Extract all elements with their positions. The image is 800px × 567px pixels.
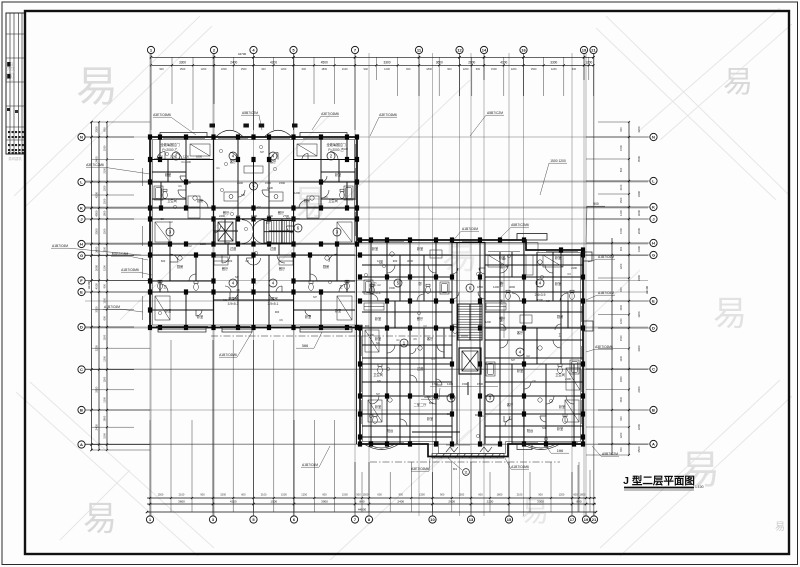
top dimension ticks and numbers row2 [150,64,595,71]
svg-text:900: 900 [447,67,452,71]
svg-text:1200: 1200 [102,396,106,402]
svg-text:1500 1200: 1500 1200 [550,159,566,163]
svg-text:易: 易 [521,496,549,527]
svg-text:1500: 1500 [157,154,163,158]
svg-text:#M8 (2): #M8 (2) [424,395,435,399]
svg-text:1500: 1500 [102,432,106,438]
svg-text:M1: M1 [453,467,457,471]
building outer wall block1 [150,137,360,328]
svg-text:A3E7/C6M6: A3E7/C6M6 [321,112,339,116]
svg-text:3300: 3300 [383,60,390,64]
window glazing lines [142,138,581,445]
building outer wall inner faces [153,140,581,454]
svg-text:17: 17 [570,517,575,522]
svg-text:1800: 1800 [321,67,327,71]
svg-text:900: 900 [365,324,370,328]
left dimension line middle [98,122,100,450]
svg-text:客厅: 客厅 [517,330,524,335]
left dimension line outer [91,122,93,450]
svg-text:11: 11 [464,470,468,474]
svg-text:M3B7/C8M: M3B7/C8M [112,252,129,256]
svg-text:C6: C6 [532,379,536,383]
svg-text:4200: 4200 [637,126,641,133]
svg-text:A5B7/C2M6: A5B7/C2M6 [511,223,529,227]
svg-text:M5: M5 [377,379,381,383]
left dimension extension lines [92,122,151,450]
svg-text:2600: 2600 [94,264,98,271]
svg-text:900: 900 [475,413,480,417]
svg-text:M5: M5 [187,181,191,185]
svg-text:900: 900 [619,127,623,132]
svg-text:2550: 2550 [500,263,504,269]
svg-text:卧室: 卧室 [165,308,171,313]
svg-text:卧室: 卧室 [197,314,203,319]
svg-text:K: K [80,206,83,211]
svg-text:C6: C6 [413,337,417,341]
svg-text:4000: 4000 [509,285,515,289]
svg-text:A5B7/C2M: A5B7/C2M [242,111,258,115]
svg-text:E: E [80,290,83,295]
svg-text:1200: 1200 [637,311,641,318]
svg-text:M7: M7 [546,299,550,303]
svg-text:全玻璃推拉门: 全玻璃推拉门 [160,142,179,147]
svg-text:1500: 1500 [619,145,623,151]
svg-text:J: J [80,217,82,222]
svg-text:1800: 1800 [102,210,106,216]
svg-text:M1: M1 [542,426,546,430]
right dimension line inner [611,238,613,455]
svg-text:600: 600 [241,492,246,496]
svg-text:2600: 2600 [637,227,641,234]
entrance porch steps [432,454,504,459]
svg-text:900: 900 [200,492,205,496]
svg-text:4200: 4200 [637,423,641,430]
svg-text:1200: 1200 [619,318,623,324]
svg-text:1200: 1200 [183,154,189,158]
svg-text:3300: 3300 [179,60,186,64]
micro door-window tags [160,147,577,430]
top dimension line segments [152,64,594,66]
dining table symbols in living rooms [224,166,532,323]
top balcony piers [210,124,216,128]
right dimension extension lines [586,122,629,455]
svg-text:4100: 4100 [94,283,98,290]
svg-text:1500: 1500 [363,492,369,496]
svg-text:过道: 过道 [230,246,237,251]
svg-text:1200: 1200 [201,67,207,71]
canopy dash-dot line below block2 [370,461,560,463]
interior dimension numbers rows [157,154,515,386]
svg-text:卧室: 卧室 [427,416,433,421]
svg-text:1500: 1500 [619,228,623,234]
svg-text:13: 13 [469,517,474,522]
svg-text:600: 600 [619,447,623,452]
svg-text:600: 600 [377,492,382,496]
svg-text:600: 600 [572,67,577,71]
svg-text:600: 600 [619,287,623,292]
svg-text:M7: M7 [376,392,380,396]
svg-text:12: 12 [457,48,462,53]
svg-text:2.4×3.9: 2.4×3.9 [535,293,546,297]
svg-text:M1: M1 [286,216,290,220]
svg-text:N: N [80,135,83,140]
svg-text:C2: C2 [169,220,173,224]
svg-text:卧室: 卧室 [165,172,171,177]
bathroom and kitchen fixtures [154,186,579,423]
svg-text:2100: 2100 [179,492,185,496]
svg-text:2400: 2400 [397,499,404,503]
svg-text:M7: M7 [313,295,317,299]
svg-text:卧室: 卧室 [417,246,423,251]
svg-text:32400: 32400 [87,280,91,289]
bottom dimension extension lines [150,340,590,512]
svg-text:J: J [652,217,654,222]
svg-text:3300: 3300 [637,345,641,352]
svg-text:A1B7/C6M6: A1B7/C6M6 [219,353,237,357]
svg-text:1800: 1800 [426,67,432,71]
svg-text:2100: 2100 [565,377,571,381]
svg-text:600: 600 [161,259,166,263]
svg-text:易: 易 [723,66,753,99]
svg-text:A3E7/C6M6: A3E7/C6M6 [411,467,429,471]
svg-text:3300: 3300 [637,274,641,281]
svg-text:H: H [80,242,83,247]
bottom dimension line segments [147,503,596,505]
svg-text:16: 16 [521,48,526,53]
svg-text:3.9×5.1: 3.9×5.1 [268,302,279,306]
svg-text:1800: 1800 [580,492,586,496]
svg-text:2100: 2100 [571,266,577,270]
bed furniture rects [155,144,580,422]
drawing title underline thin [624,489,694,491]
svg-text:C2: C2 [377,283,381,287]
svg-text:C1: C1 [324,195,328,199]
svg-text:1800: 1800 [221,67,227,71]
interior vertical dim numbers block2 core [500,263,504,323]
svg-text:C1: C1 [216,166,220,170]
svg-text:900: 900 [593,202,599,206]
svg-text:易: 易 [293,184,327,222]
svg-text:1400: 1400 [447,382,453,386]
staircase S2 [458,304,482,340]
svg-text:19: 19 [582,48,587,53]
svg-text:卧室: 卧室 [517,368,523,373]
svg-text:阳台: 阳台 [387,428,393,433]
svg-text:3900: 3900 [321,499,328,503]
bottom dimension line fine [147,497,596,499]
svg-text:2100: 2100 [261,492,267,496]
bottom-left balcony rails [158,328,352,333]
svg-text:1800: 1800 [196,154,202,158]
svg-text:A3E7/C6M6: A3E7/C6M6 [595,345,613,349]
svg-text:阳台: 阳台 [527,428,533,433]
svg-text:起居室: 起居室 [268,296,278,301]
entrance double door zigzag left [446,447,458,452]
svg-text:15: 15 [507,517,512,522]
bay window parapet above top wall right [300,133,347,138]
left dimension line inner [106,122,108,450]
svg-text:卧室: 卧室 [555,255,561,260]
svg-text:A: A [80,442,83,447]
svg-text:E: E [652,299,655,304]
svg-text:A: A [652,442,655,447]
svg-text:3300: 3300 [94,228,98,235]
svg-text:M7: M7 [260,150,264,154]
svg-text:1500: 1500 [102,376,106,382]
svg-text:C: C [652,367,655,372]
svg-text:全玻璃推拉门: 全玻璃推拉门 [326,142,345,147]
svg-text:1500: 1500 [102,198,106,204]
svg-text:1500: 1500 [458,492,464,496]
svg-text:1200: 1200 [559,492,565,496]
svg-text:C2: C2 [188,244,192,248]
svg-text:M1: M1 [376,341,380,345]
svg-text:1500: 1500 [419,492,425,496]
svg-text:卧室: 卧室 [559,404,565,409]
svg-text:1500: 1500 [462,382,468,386]
svg-text:客厅: 客厅 [270,159,277,164]
elevator shaft E2 [459,348,481,374]
svg-text:1500: 1500 [531,67,537,71]
svg-text:900: 900 [440,492,445,496]
drawing title underline thick [624,487,694,489]
bottom dimension overall line [147,511,596,513]
svg-text:A3E7/C6M6: A3E7/C6M6 [379,113,397,117]
room text labels [160,142,565,433]
svg-text:易: 易 [713,295,747,333]
svg-text:600: 600 [429,401,434,405]
top balcony arc left [216,130,244,137]
svg-text:H: H [652,241,655,246]
svg-text:卫生间: 卫生间 [328,198,338,203]
svg-text:2100: 2100 [517,492,523,496]
svg-text:C2: C2 [526,354,530,358]
svg-text:B: B [80,408,83,413]
svg-text:10: 10 [430,517,435,522]
lobby double door south [242,233,265,244]
svg-text:C3: C3 [160,217,164,221]
svg-text:1700: 1700 [432,382,438,386]
svg-text:1500: 1500 [102,228,106,234]
svg-text:易网建筑: 易网建筑 [8,156,22,161]
svg-text:2100: 2100 [170,154,176,158]
svg-text:客厅: 客厅 [507,402,514,407]
svg-text:D: D [80,325,83,330]
svg-text:1500: 1500 [102,145,106,151]
svg-text:客厅: 客厅 [230,159,237,164]
svg-text:1800: 1800 [497,492,503,496]
svg-text:900: 900 [102,284,106,289]
svg-text:1200: 1200 [294,191,300,195]
svg-text:卧室: 卧室 [375,336,381,341]
svg-text:餐厅: 餐厅 [279,266,286,271]
svg-text:易: 易 [76,63,118,110]
svg-text:2400: 2400 [237,181,243,185]
svg-text:32100: 32100 [645,285,649,294]
svg-text:600: 600 [447,412,452,416]
svg-text:4500: 4500 [321,60,328,64]
interior dimension tick rows [154,159,504,387]
svg-text:C3: C3 [567,272,571,276]
svg-text:900: 900 [619,416,623,421]
svg-text:A3E7/C6M6: A3E7/C6M6 [153,113,171,117]
svg-text:A5B7/C2M: A5B7/C2M [487,111,503,115]
svg-text:19: 19 [584,517,589,522]
svg-text:600: 600 [619,167,623,172]
svg-text:卧室: 卧室 [335,308,341,313]
block2 bottom balcony arc left [364,444,399,450]
svg-text:900: 900 [228,259,233,263]
svg-text:C3: C3 [245,259,249,263]
bottom ticks and numbers [146,492,597,513]
svg-text:3300: 3300 [537,499,544,503]
svg-text:A1B7/C6M: A1B7/C6M [302,463,318,467]
svg-text:1200: 1200 [281,67,287,71]
svg-text:J 型二层平面图: J 型二层平面图 [623,474,695,487]
svg-text:卧室: 卧室 [335,172,341,177]
building outer wall block2 [357,240,583,457]
svg-text:卧室: 卧室 [372,246,378,251]
right wall balcony bump lower [583,321,593,331]
svg-text:C1: C1 [178,184,182,188]
svg-text:3300: 3300 [637,190,641,197]
bay window parapet above top wall left [160,133,207,138]
svg-text:起居室: 起居室 [228,296,238,301]
svg-text:300: 300 [252,181,257,185]
svg-text:900: 900 [393,259,398,263]
svg-text:3000: 3000 [407,259,413,263]
svg-text:P=2000 乙: P=2000 乙 [162,147,177,152]
svg-text:1M6: 1M6 [557,449,564,453]
svg-text:1500: 1500 [619,335,623,341]
svg-text:卫生间: 卫生间 [167,198,177,203]
room number tags [166,152,544,402]
vertical axis grid lines [150,53,594,516]
left axis circles [78,133,92,140]
svg-text:600: 600 [573,492,578,496]
svg-text:M7: M7 [511,358,515,362]
svg-text:1200: 1200 [463,67,469,71]
svg-text:1200: 1200 [102,185,106,191]
svg-text:1500: 1500 [241,67,247,71]
svg-text:卧室: 卧室 [305,314,311,319]
top dimension extension lines [151,57,594,130]
svg-text:1200: 1200 [102,297,106,303]
svg-text:1500: 1500 [102,334,106,340]
svg-text:900: 900 [538,492,543,496]
svg-text:二室二厅: 二室二厅 [414,402,428,407]
svg-text:卧室: 卧室 [557,426,563,431]
svg-text:900: 900 [364,67,369,71]
right wall balcony bump upper [583,252,592,261]
entrance double door zigzag right [480,447,492,452]
svg-text:A1B7/C6M: A1B7/C6M [598,291,614,295]
svg-text:卧室: 卧室 [555,281,561,286]
canopy dash-dot line below block1 [211,335,470,337]
svg-text:1500: 1500 [619,197,623,203]
right dimension line outer [628,122,630,455]
micro wall junction circles [158,145,552,440]
svg-text:C1: C1 [499,315,503,319]
block2 interior horizontal walls [362,243,583,438]
block1 interior vertical walls [160,137,347,328]
svg-text:1500: 1500 [491,67,497,71]
svg-text:1500: 1500 [180,67,186,71]
svg-text:1500: 1500 [619,396,623,402]
svg-text:600: 600 [102,127,106,132]
svg-text:4500: 4500 [637,446,641,453]
svg-text:600: 600 [406,67,411,71]
svg-text:600: 600 [476,67,481,71]
title block table [6,13,25,154]
svg-text:C1: C1 [480,414,484,418]
svg-text:A1B7/C6M: A1B7/C6M [104,305,120,309]
svg-text:1500: 1500 [200,242,206,246]
top dimension line overall [152,56,594,58]
block1 interior horizontal walls [152,160,355,311]
svg-text:A1B7/C6M6: A1B7/C6M6 [121,268,139,272]
svg-text:3600: 3600 [178,499,185,503]
top axis circles [147,46,154,57]
svg-text:44700: 44700 [238,52,247,56]
svg-text:1200: 1200 [485,320,491,324]
elevator shaft E1 [215,219,236,244]
svg-text:1800: 1800 [267,214,273,218]
svg-text:K: K [652,205,655,210]
svg-text:A1B7/C6M: A1B7/C6M [52,244,68,248]
left ticks and numbers [90,121,108,451]
svg-text:2100: 2100 [619,184,623,190]
svg-text:600: 600 [302,67,307,71]
svg-text:2100: 2100 [342,147,348,151]
svg-text:600: 600 [322,492,327,496]
svg-text:3300: 3300 [94,126,98,133]
svg-text:3300: 3300 [550,60,557,64]
svg-text:厨房: 厨房 [557,314,563,319]
svg-text:厨房: 厨房 [323,264,329,269]
svg-text:M7: M7 [502,257,506,261]
svg-text:1200: 1200 [493,285,499,289]
svg-text:C3: C3 [431,357,435,361]
svg-text:21: 21 [592,517,597,522]
svg-text:D: D [652,326,655,331]
svg-text:M1: M1 [223,298,227,302]
svg-text:3600: 3600 [637,209,641,216]
svg-text:C6: C6 [236,288,240,292]
svg-text:C2: C2 [257,205,261,209]
svg-text:1500: 1500 [281,492,287,496]
svg-text:1200: 1200 [224,241,230,245]
svg-text:易: 易 [775,521,785,533]
svg-text:1200: 1200 [102,355,106,361]
block2 left inner wall face [356,240,358,444]
svg-text:3300: 3300 [94,386,98,393]
right balcony step rect [517,444,532,450]
svg-text:300: 300 [236,214,241,218]
svg-text:C1: C1 [396,338,400,342]
svg-text:A3E7/C2M6: A3E7/C2M6 [86,163,104,167]
svg-text:900: 900 [619,246,623,251]
svg-text:M5: M5 [241,193,245,197]
svg-text:1850: 1850 [477,285,483,289]
svg-text:N: N [652,135,655,140]
svg-text:2100: 2100 [102,167,106,173]
right ticks and numbers [611,121,641,456]
svg-text:过道: 过道 [270,246,277,251]
svg-text:过道: 过道 [417,366,424,371]
svg-text:1500: 1500 [279,181,285,185]
svg-text:21: 21 [591,48,596,53]
